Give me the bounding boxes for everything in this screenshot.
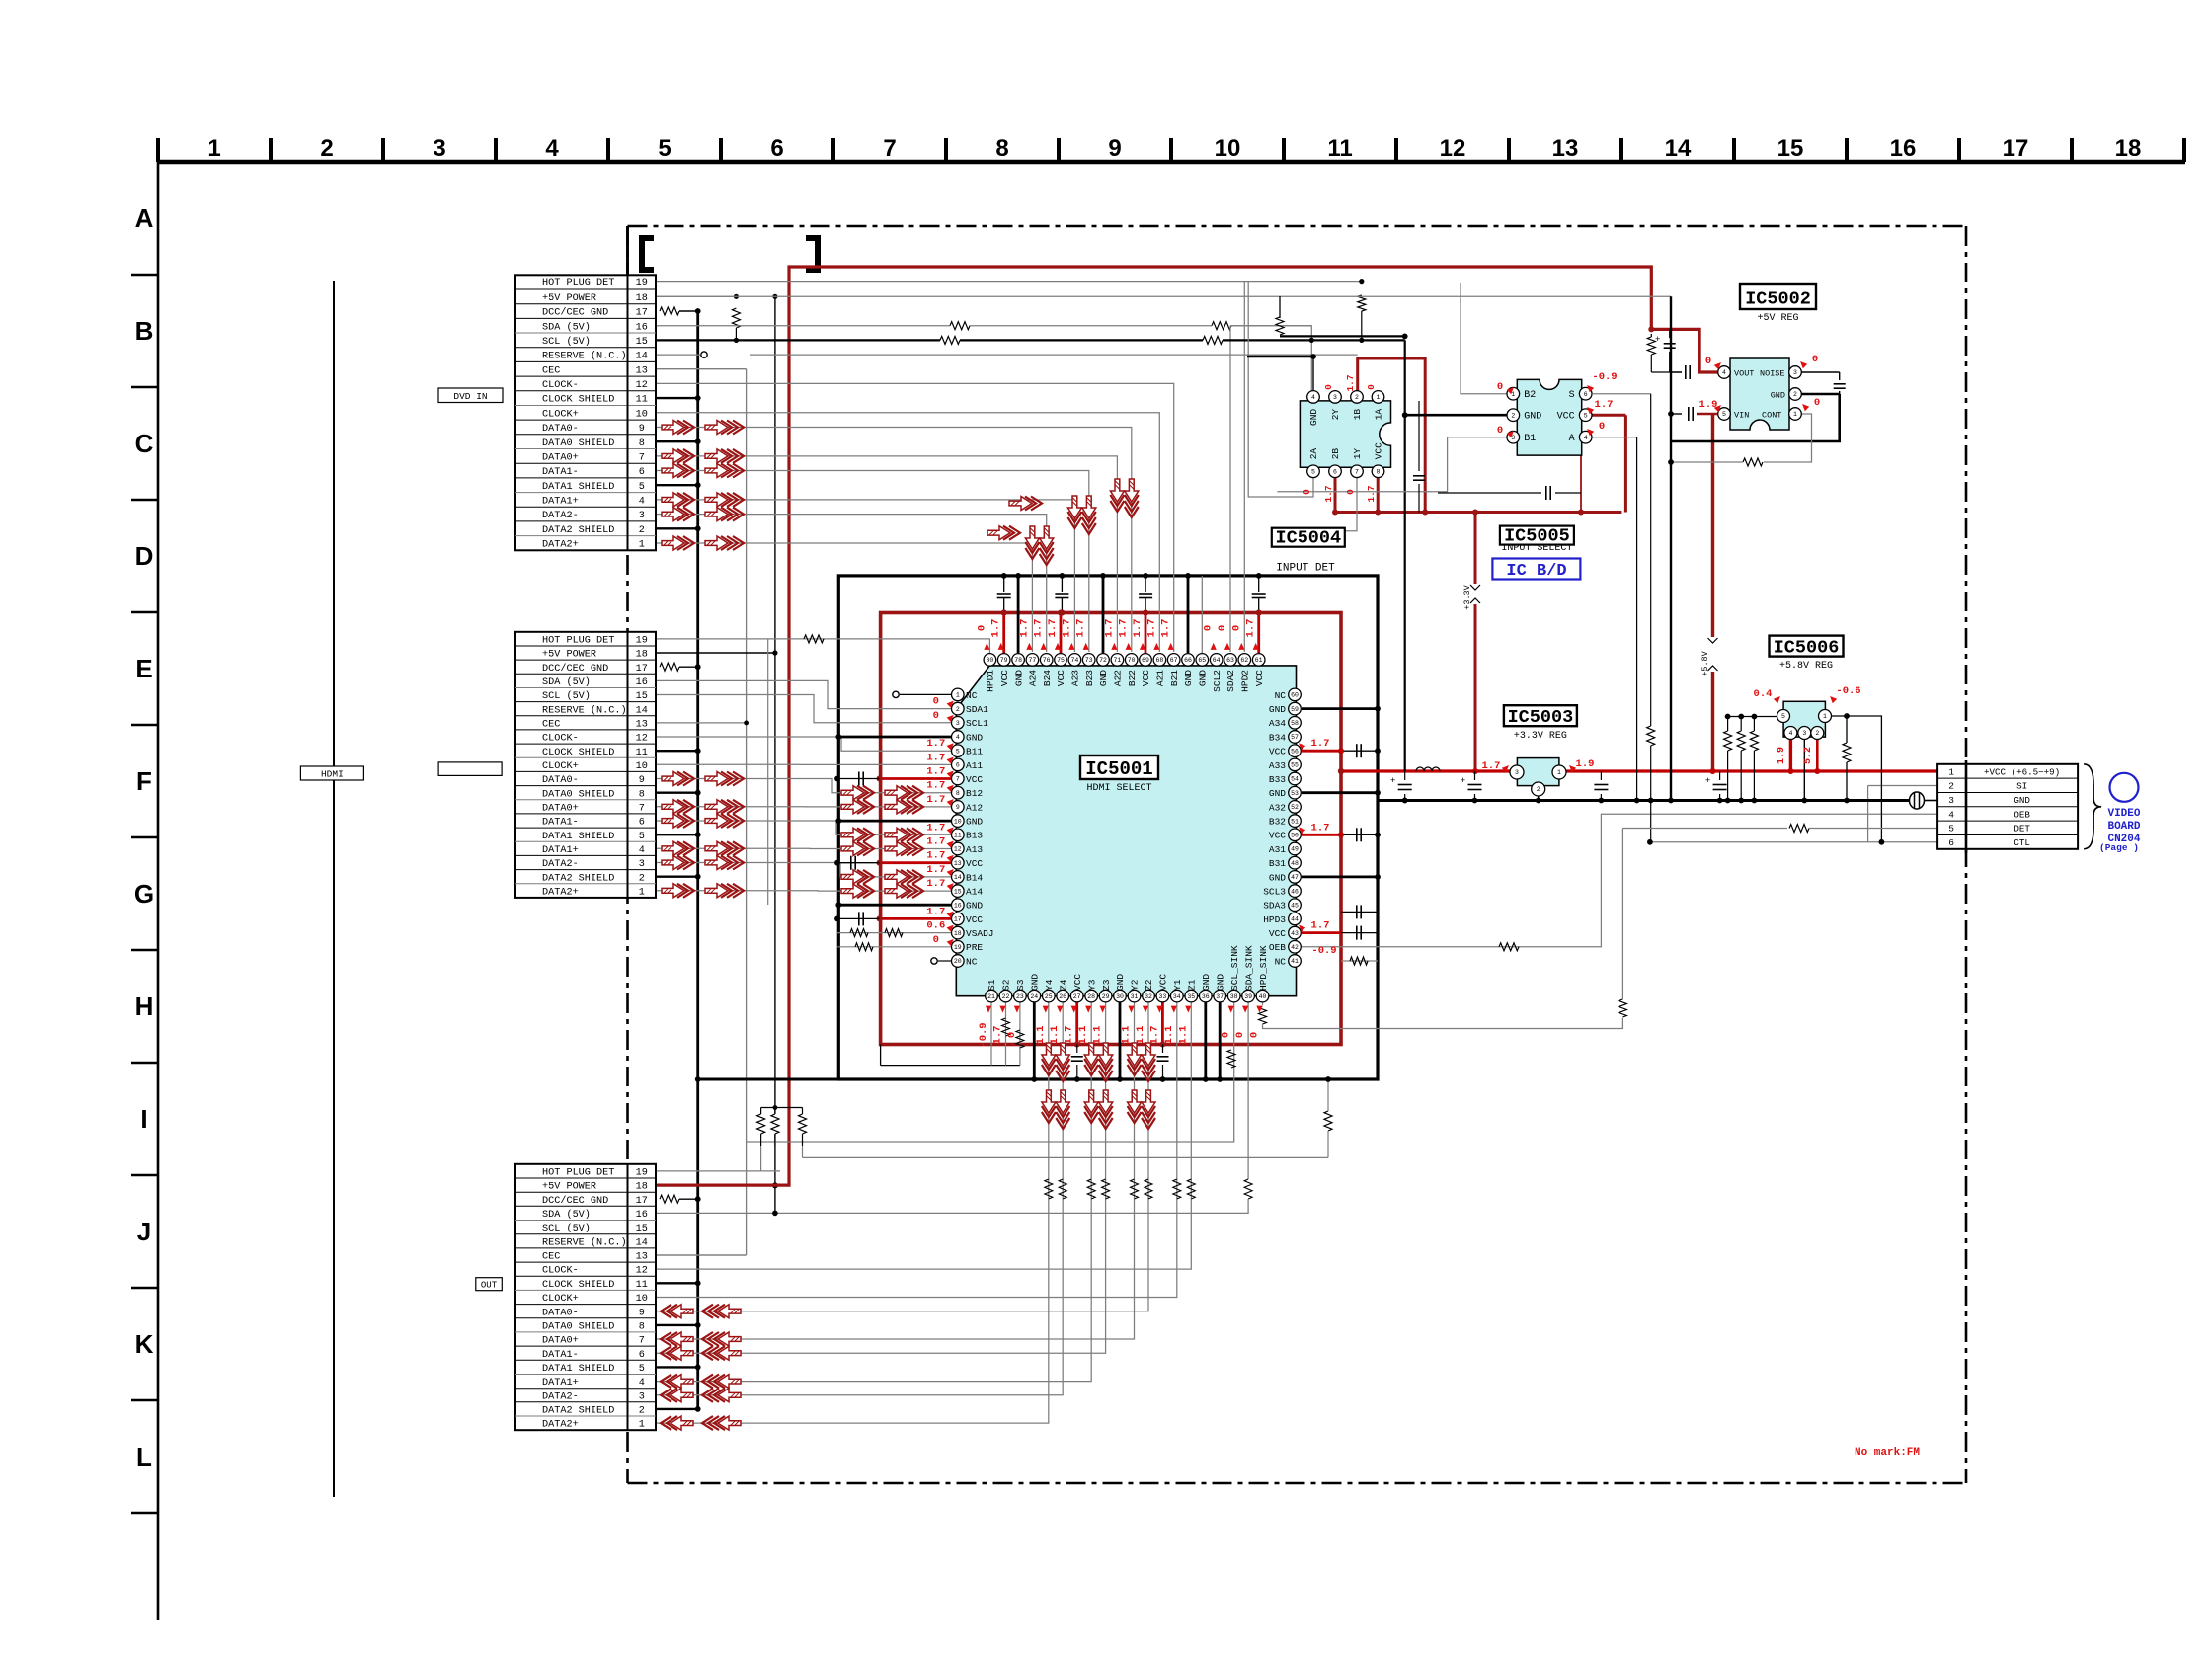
svg-text:40: 40 — [1259, 993, 1267, 1000]
svg-text:A14: A14 — [966, 887, 983, 898]
svg-text:18: 18 — [636, 293, 648, 304]
svg-text:NOISE: NOISE — [1760, 368, 1785, 378]
svg-text:1.7: 1.7 — [1061, 619, 1072, 638]
svg-text:B12: B12 — [966, 788, 983, 799]
svg-text:30: 30 — [1116, 993, 1124, 1000]
svg-text:13: 13 — [1552, 135, 1579, 162]
svg-text:GND: GND — [2014, 795, 2030, 806]
svg-text:BOARD: BOARD — [2107, 821, 2140, 833]
svg-text:A31: A31 — [1269, 844, 1286, 855]
svg-text:4: 4 — [639, 845, 645, 856]
svg-text:1.7: 1.7 — [1148, 1026, 1160, 1045]
svg-text:CLOCK SHIELD: CLOCK SHIELD — [542, 748, 614, 758]
svg-text:75: 75 — [1057, 657, 1065, 664]
svg-text:1: 1 — [639, 1420, 645, 1431]
svg-text:1.7: 1.7 — [926, 906, 945, 917]
svg-text:+3.3V REG: +3.3V REG — [1514, 731, 1567, 742]
svg-text:11: 11 — [636, 1280, 648, 1291]
svg-text:GND: GND — [1269, 704, 1286, 715]
svg-text:10: 10 — [636, 409, 648, 420]
svg-text:A34: A34 — [1269, 718, 1286, 729]
svg-text:K: K — [135, 1329, 154, 1359]
svg-text:B32: B32 — [1269, 817, 1286, 828]
svg-text:61: 61 — [1255, 657, 1263, 664]
svg-text:DATA1 SHIELD: DATA1 SHIELD — [542, 482, 614, 493]
svg-text:-0.6: -0.6 — [1836, 685, 1860, 697]
svg-text:GND: GND — [1771, 390, 1785, 400]
svg-text:J: J — [137, 1217, 151, 1246]
svg-text:71: 71 — [1113, 657, 1121, 664]
svg-text:B14: B14 — [966, 872, 983, 883]
svg-text:VCC: VCC — [999, 670, 1010, 686]
svg-text:DATA2-: DATA2- — [542, 1391, 579, 1402]
svg-text:DATA0+: DATA0+ — [542, 803, 579, 814]
svg-text:1.1: 1.1 — [1077, 1026, 1089, 1045]
svg-text:63: 63 — [1226, 657, 1234, 664]
svg-text:0: 0 — [1323, 384, 1334, 390]
svg-text:18: 18 — [636, 1182, 648, 1193]
svg-text:2: 2 — [956, 706, 960, 713]
svg-text:VCC: VCC — [966, 774, 983, 785]
svg-text:G: G — [134, 879, 154, 909]
svg-text:1: 1 — [956, 692, 960, 699]
svg-text:NC: NC — [1275, 690, 1287, 701]
svg-text:5.2: 5.2 — [1803, 747, 1814, 764]
svg-text:DCC/CEC GND: DCC/CEC GND — [542, 1195, 608, 1207]
svg-text:12: 12 — [954, 846, 962, 853]
svg-text:3: 3 — [1515, 769, 1519, 776]
svg-text:19: 19 — [954, 944, 962, 951]
svg-text:72: 72 — [1099, 657, 1107, 664]
svg-text:DATA1-: DATA1- — [542, 818, 579, 829]
svg-text:3: 3 — [1802, 730, 1806, 737]
svg-text:2B: 2B — [1330, 448, 1341, 460]
svg-text:1.7: 1.7 — [1145, 619, 1157, 638]
svg-text:48: 48 — [1291, 860, 1299, 867]
svg-text:22: 22 — [1002, 993, 1010, 1000]
svg-text:Z3: Z3 — [1101, 979, 1112, 991]
svg-text:Y3: Y3 — [1086, 979, 1097, 991]
svg-text:DATA2-: DATA2- — [542, 859, 579, 870]
svg-text:15: 15 — [1777, 135, 1804, 162]
svg-text:DVD IN: DVD IN — [453, 391, 487, 402]
svg-text:B11: B11 — [966, 747, 983, 757]
svg-text:+5.8V: +5.8V — [1700, 650, 1710, 675]
svg-text:B23: B23 — [1084, 670, 1095, 686]
svg-text:DATA2+: DATA2+ — [542, 540, 579, 551]
svg-text:GND: GND — [1201, 974, 1212, 991]
svg-text:S2: S2 — [1001, 979, 1012, 991]
svg-text:0: 0 — [1230, 625, 1242, 631]
svg-text:57: 57 — [1291, 734, 1299, 741]
svg-text:S1: S1 — [987, 979, 997, 991]
svg-text:8: 8 — [956, 790, 960, 797]
svg-text:DATA1-: DATA1- — [542, 1350, 579, 1361]
svg-text:S: S — [1569, 390, 1575, 401]
svg-text:5: 5 — [1584, 412, 1588, 419]
svg-text:No mark:FM: No mark:FM — [1855, 1447, 1920, 1459]
svg-text:38: 38 — [1230, 993, 1238, 1000]
svg-text:2Y: 2Y — [1330, 409, 1341, 421]
svg-text:17: 17 — [636, 308, 648, 319]
svg-text:VCC: VCC — [1158, 974, 1169, 991]
svg-text:17: 17 — [954, 916, 962, 923]
svg-text:3: 3 — [639, 511, 645, 521]
svg-text:17: 17 — [636, 664, 648, 675]
svg-text:NC: NC — [966, 956, 978, 967]
svg-text:8: 8 — [639, 1322, 645, 1333]
svg-text:0: 0 — [1814, 397, 1820, 409]
svg-text:8: 8 — [1377, 469, 1381, 476]
svg-text:+: + — [1655, 335, 1660, 345]
svg-text:1.7: 1.7 — [926, 780, 945, 792]
svg-text:IC5006: IC5006 — [1774, 637, 1840, 658]
svg-text:77: 77 — [1028, 657, 1036, 664]
svg-text:1.1: 1.1 — [1135, 1026, 1146, 1045]
svg-text:59: 59 — [1291, 706, 1299, 713]
svg-text:13: 13 — [954, 860, 962, 867]
svg-text:20: 20 — [954, 958, 962, 965]
svg-text:HPD_SINK: HPD_SINK — [1258, 945, 1269, 991]
svg-text:13: 13 — [636, 1252, 648, 1263]
svg-text:B33: B33 — [1269, 774, 1286, 785]
svg-text:VCC: VCC — [1254, 670, 1265, 686]
svg-text:6: 6 — [639, 1350, 645, 1361]
svg-text:DATA2 SHIELD: DATA2 SHIELD — [542, 1406, 614, 1417]
svg-text:10: 10 — [636, 1294, 648, 1305]
svg-text:B: B — [135, 316, 154, 346]
svg-text:PRE: PRE — [966, 942, 983, 953]
svg-text:SCL (5V): SCL (5V) — [542, 690, 591, 702]
svg-text:I: I — [140, 1104, 147, 1134]
svg-text:DATA2 SHIELD: DATA2 SHIELD — [542, 525, 614, 536]
svg-text:4: 4 — [1584, 435, 1588, 441]
svg-text:1.7: 1.7 — [1018, 619, 1030, 638]
svg-text:DATA0+: DATA0+ — [542, 1336, 579, 1347]
svg-text:2: 2 — [1815, 730, 1819, 737]
svg-text:52: 52 — [1291, 804, 1299, 811]
svg-text:5: 5 — [1722, 411, 1726, 418]
svg-text:GND: GND — [1030, 974, 1041, 991]
svg-text:DATA0+: DATA0+ — [542, 453, 579, 464]
svg-text:CEC: CEC — [542, 720, 560, 731]
svg-text:L: L — [136, 1442, 152, 1471]
svg-text:14: 14 — [636, 705, 648, 716]
svg-text:CLOCK SHIELD: CLOCK SHIELD — [542, 395, 614, 406]
svg-text:1.7: 1.7 — [1482, 760, 1501, 772]
svg-text:+3.3V: +3.3V — [1462, 584, 1472, 609]
svg-text:(Page ): (Page ) — [2099, 842, 2139, 853]
svg-text:46: 46 — [1291, 888, 1299, 895]
svg-text:+5V POWER: +5V POWER — [542, 650, 596, 661]
svg-text:7: 7 — [956, 776, 960, 783]
svg-text:CLOCK-: CLOCK- — [542, 380, 579, 391]
svg-text:6: 6 — [1333, 469, 1337, 476]
svg-text:1.7: 1.7 — [1311, 822, 1330, 834]
svg-text:18: 18 — [2115, 135, 2142, 162]
svg-text:0: 0 — [1599, 421, 1605, 433]
svg-text:DATA2 SHIELD: DATA2 SHIELD — [542, 873, 614, 884]
svg-text:7: 7 — [639, 453, 645, 464]
svg-text:SDA1: SDA1 — [966, 704, 988, 715]
svg-text:4: 4 — [639, 1378, 645, 1389]
svg-text:53: 53 — [1291, 790, 1299, 797]
svg-text:5: 5 — [1948, 824, 1954, 834]
svg-text:11: 11 — [1327, 135, 1352, 162]
svg-text:2: 2 — [1948, 781, 1954, 792]
svg-text:A32: A32 — [1269, 802, 1286, 813]
svg-text:4: 4 — [639, 497, 645, 508]
svg-text:58: 58 — [1291, 720, 1299, 727]
svg-text:SCL1: SCL1 — [966, 718, 988, 729]
svg-text:+5V POWER: +5V POWER — [542, 293, 596, 304]
svg-text:1.7: 1.7 — [1033, 619, 1045, 638]
svg-text:68: 68 — [1155, 657, 1163, 664]
svg-text:1: 1 — [1377, 394, 1381, 401]
svg-text:VCC: VCC — [1269, 831, 1286, 841]
svg-text:1.1: 1.1 — [1092, 1026, 1104, 1045]
svg-text:7: 7 — [639, 803, 645, 814]
svg-text:10: 10 — [954, 818, 962, 825]
svg-text:17: 17 — [636, 1196, 648, 1207]
svg-text:39: 39 — [1244, 993, 1252, 1000]
svg-text:5: 5 — [639, 832, 645, 842]
svg-text:3: 3 — [433, 135, 445, 162]
svg-text:E: E — [135, 654, 152, 683]
svg-text:B24: B24 — [1042, 670, 1053, 686]
svg-text:VCC: VCC — [1269, 928, 1286, 939]
svg-text:0.4: 0.4 — [1754, 688, 1773, 700]
svg-text:1.7: 1.7 — [926, 878, 945, 890]
svg-text:GND: GND — [966, 732, 983, 743]
svg-text:16: 16 — [636, 322, 648, 333]
svg-text:8: 8 — [639, 789, 645, 800]
svg-text:B21: B21 — [1169, 670, 1180, 686]
svg-text:56: 56 — [1291, 748, 1299, 755]
svg-text:14: 14 — [636, 352, 648, 362]
svg-text:2: 2 — [639, 873, 645, 884]
svg-text:37: 37 — [1216, 993, 1224, 1000]
svg-text:DATA2+: DATA2+ — [542, 1420, 579, 1431]
svg-text:0: 0 — [933, 696, 939, 708]
svg-text:+5V POWER: +5V POWER — [542, 1182, 596, 1193]
svg-text:0: 0 — [1234, 1032, 1246, 1038]
svg-text:A22: A22 — [1113, 670, 1124, 686]
svg-text:4: 4 — [1722, 369, 1726, 376]
svg-text:1.7: 1.7 — [926, 822, 945, 834]
svg-text:9: 9 — [1108, 135, 1121, 162]
svg-text:4: 4 — [545, 135, 559, 162]
svg-text:9: 9 — [639, 424, 645, 435]
svg-text:11: 11 — [636, 748, 648, 758]
svg-text:18: 18 — [954, 930, 962, 937]
svg-text:CEC: CEC — [542, 365, 560, 376]
svg-text:SDA (5V): SDA (5V) — [542, 676, 591, 688]
svg-text:16: 16 — [1890, 135, 1917, 162]
svg-text:12: 12 — [636, 734, 648, 745]
svg-text:10: 10 — [636, 761, 648, 772]
svg-text:9: 9 — [956, 804, 960, 811]
svg-text:67: 67 — [1170, 657, 1178, 664]
svg-text:11: 11 — [636, 395, 648, 406]
svg-text:SCL3: SCL3 — [1263, 887, 1286, 898]
svg-text:2: 2 — [320, 135, 333, 162]
svg-text:74: 74 — [1070, 657, 1078, 664]
svg-text:IC5001: IC5001 — [1085, 758, 1152, 780]
svg-text:1Y: 1Y — [1352, 448, 1363, 460]
svg-text:1.7: 1.7 — [926, 836, 945, 848]
svg-text:1.7: 1.7 — [1064, 1026, 1075, 1045]
svg-text:42: 42 — [1291, 944, 1299, 951]
svg-text:19: 19 — [636, 636, 648, 647]
svg-text:64: 64 — [1213, 657, 1221, 664]
svg-text:2: 2 — [1537, 786, 1540, 793]
svg-text:CONT: CONT — [1762, 410, 1781, 420]
svg-text:Z4: Z4 — [1059, 979, 1069, 991]
svg-text:DATA1 SHIELD: DATA1 SHIELD — [542, 832, 614, 842]
svg-text:A23: A23 — [1070, 670, 1081, 686]
svg-text:5: 5 — [1781, 713, 1785, 720]
svg-text:HPD3: HPD3 — [1263, 914, 1286, 925]
svg-text:3: 3 — [639, 1391, 645, 1402]
svg-text:B2: B2 — [1524, 390, 1536, 401]
svg-text:HDMI SELECT: HDMI SELECT — [1086, 783, 1151, 794]
svg-text:1.7: 1.7 — [1595, 399, 1614, 411]
svg-text:A11: A11 — [966, 760, 983, 771]
svg-text:+VCC (+6.5~+9): +VCC (+6.5~+9) — [1984, 766, 2060, 777]
svg-text:1.9: 1.9 — [1777, 747, 1787, 764]
svg-text:1.7: 1.7 — [1132, 619, 1144, 638]
svg-text:DATA0 SHIELD: DATA0 SHIELD — [542, 789, 614, 800]
svg-text:1.7: 1.7 — [926, 766, 945, 778]
svg-text:35: 35 — [1187, 993, 1195, 1000]
svg-text:SDA (5V): SDA (5V) — [542, 1209, 591, 1221]
svg-text:47: 47 — [1291, 874, 1299, 881]
svg-text:7: 7 — [883, 135, 896, 162]
svg-text:0: 0 — [1497, 425, 1503, 437]
svg-text:DATA1+: DATA1+ — [542, 1378, 579, 1389]
svg-text:VSADJ: VSADJ — [966, 928, 994, 939]
svg-text:54: 54 — [1291, 776, 1299, 783]
svg-text:HOT PLUG DET: HOT PLUG DET — [542, 278, 614, 289]
svg-text:-0.9: -0.9 — [1592, 371, 1617, 383]
svg-text:1A: 1A — [1374, 409, 1384, 421]
svg-text:VCC: VCC — [1056, 670, 1066, 686]
svg-text:2: 2 — [1793, 391, 1797, 398]
svg-text:1.9: 1.9 — [1699, 399, 1718, 411]
svg-text:1.7: 1.7 — [926, 794, 945, 806]
svg-text:SDA2: SDA2 — [1225, 670, 1236, 692]
svg-text:1.7: 1.7 — [992, 1026, 1004, 1045]
svg-text:15: 15 — [954, 888, 962, 895]
svg-text:SI: SI — [2016, 781, 2027, 792]
svg-text:DATA1+: DATA1+ — [542, 845, 579, 856]
svg-text:69: 69 — [1142, 657, 1149, 664]
svg-text:S3: S3 — [1015, 979, 1026, 991]
svg-text:IC5002: IC5002 — [1745, 289, 1811, 310]
svg-text:2: 2 — [639, 525, 645, 536]
svg-text:6: 6 — [1584, 391, 1588, 398]
svg-text:DATA2-: DATA2- — [542, 511, 579, 521]
svg-text:A13: A13 — [966, 844, 983, 855]
svg-text:9: 9 — [639, 775, 645, 786]
svg-text:66: 66 — [1184, 657, 1192, 664]
svg-text:CTL: CTL — [2014, 837, 2030, 848]
svg-text:16: 16 — [636, 1210, 648, 1221]
svg-text:+: + — [1390, 776, 1395, 786]
svg-text:1.1: 1.1 — [1121, 1026, 1133, 1045]
svg-text:21: 21 — [987, 993, 995, 1000]
svg-text:GND: GND — [1115, 974, 1126, 991]
svg-text:79: 79 — [1000, 657, 1008, 664]
svg-text:SDA (5V): SDA (5V) — [542, 321, 591, 333]
svg-text:36: 36 — [1202, 993, 1210, 1000]
svg-text:1.7: 1.7 — [1323, 485, 1334, 502]
svg-text:NC: NC — [966, 690, 978, 701]
svg-text:VCC: VCC — [966, 858, 983, 869]
svg-text:B31: B31 — [1269, 858, 1286, 869]
svg-text:12: 12 — [636, 380, 648, 391]
svg-text:51: 51 — [1291, 818, 1299, 825]
svg-text:OUT: OUT — [481, 1281, 498, 1291]
svg-text:0: 0 — [933, 710, 939, 722]
svg-text:11: 11 — [954, 833, 962, 839]
svg-text:31: 31 — [1131, 993, 1139, 1000]
svg-text:DATA1 SHIELD: DATA1 SHIELD — [542, 1364, 614, 1375]
svg-text:GND: GND — [1215, 974, 1225, 991]
svg-text:DATA0 SHIELD: DATA0 SHIELD — [542, 438, 614, 449]
svg-text:H: H — [135, 992, 154, 1021]
svg-text:GND: GND — [966, 817, 983, 828]
svg-text:Y2: Y2 — [1130, 979, 1141, 991]
svg-text:OEB: OEB — [2014, 809, 2030, 820]
svg-text:1.1: 1.1 — [1177, 1026, 1189, 1045]
svg-text:0: 0 — [1705, 356, 1711, 367]
svg-text:DATA1-: DATA1- — [542, 467, 579, 478]
svg-text:1: 1 — [1948, 766, 1954, 777]
svg-text:1.7: 1.7 — [1118, 619, 1130, 638]
svg-text:OEB: OEB — [1269, 942, 1286, 953]
svg-text:B13: B13 — [966, 831, 983, 841]
svg-text:VCC: VCC — [1269, 747, 1286, 757]
svg-text:1.7: 1.7 — [1311, 920, 1330, 932]
svg-text:25: 25 — [1045, 993, 1053, 1000]
svg-text:GND: GND — [1098, 670, 1109, 686]
svg-text:62: 62 — [1240, 657, 1248, 664]
svg-text:1: 1 — [1823, 713, 1827, 720]
svg-text:6: 6 — [770, 135, 783, 162]
svg-text:0: 0 — [1203, 625, 1215, 631]
svg-text:41: 41 — [1291, 958, 1299, 965]
svg-text:IC5003: IC5003 — [1508, 707, 1574, 728]
svg-text:DATA0-: DATA0- — [542, 775, 579, 786]
svg-text:18: 18 — [636, 650, 648, 661]
svg-text:65: 65 — [1198, 657, 1206, 664]
svg-text:VCC: VCC — [1374, 442, 1384, 459]
svg-text:0: 0 — [933, 934, 939, 946]
svg-text:1: 1 — [639, 887, 645, 898]
svg-text:Z2: Z2 — [1144, 979, 1154, 991]
svg-text:HOT PLUG DET: HOT PLUG DET — [542, 636, 614, 647]
svg-text:8: 8 — [995, 135, 1008, 162]
svg-text:2A: 2A — [1308, 448, 1319, 460]
svg-text:1.7: 1.7 — [1345, 374, 1356, 391]
svg-text:7: 7 — [1355, 469, 1359, 476]
svg-text:50: 50 — [1291, 833, 1299, 839]
svg-text:12: 12 — [636, 1266, 648, 1277]
svg-text:1.7: 1.7 — [926, 850, 945, 862]
svg-text:0: 0 — [1497, 381, 1503, 393]
